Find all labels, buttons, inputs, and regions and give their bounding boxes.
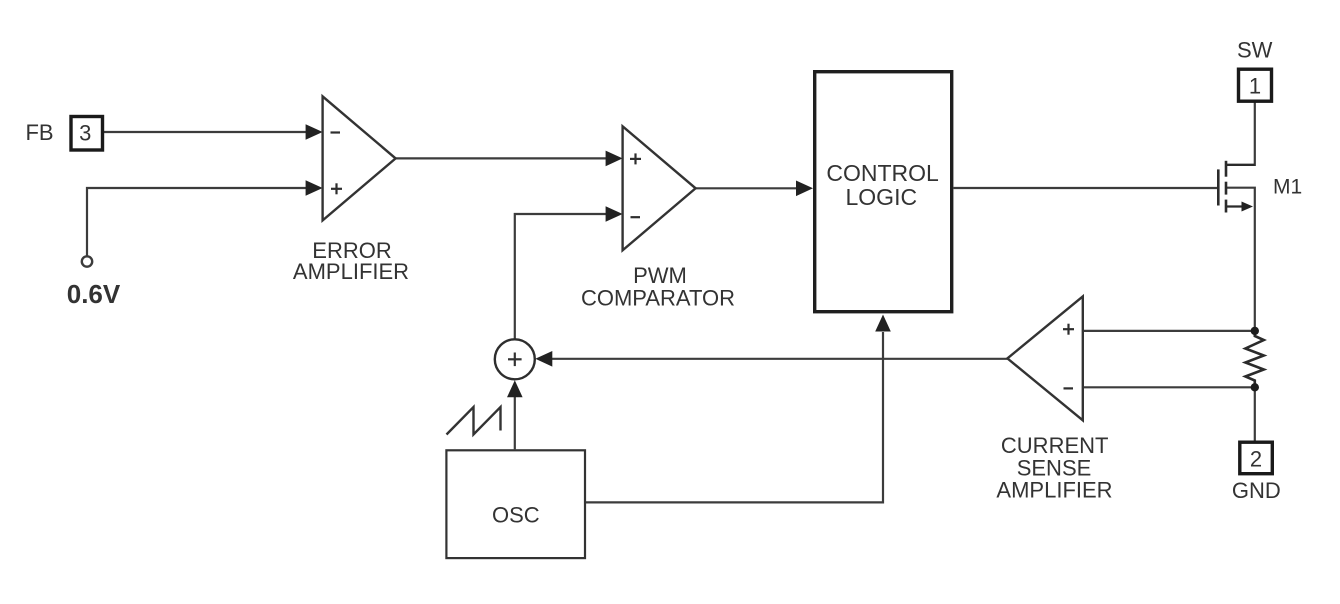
svg-text:CURRENT: CURRENT [1001, 433, 1109, 458]
svg-text:2: 2 [1250, 447, 1262, 472]
svg-text:OSC: OSC [492, 503, 540, 528]
svg-text:COMPARATOR: COMPARATOR [581, 286, 735, 311]
svg-text:PWM: PWM [633, 263, 687, 288]
svg-text:0.6V: 0.6V [67, 279, 121, 309]
svg-text:CONTROL: CONTROL [826, 160, 939, 186]
svg-text:M1: M1 [1273, 176, 1302, 199]
svg-text:FB: FB [25, 120, 53, 145]
svg-text:3: 3 [79, 120, 91, 145]
svg-text:SW: SW [1237, 38, 1273, 63]
svg-text:AMPLIFIER: AMPLIFIER [996, 478, 1112, 503]
svg-text:1: 1 [1249, 74, 1261, 99]
svg-text:GND: GND [1232, 478, 1281, 503]
svg-text:AMPLIFIER: AMPLIFIER [293, 259, 409, 284]
svg-text:LOGIC: LOGIC [846, 184, 918, 210]
